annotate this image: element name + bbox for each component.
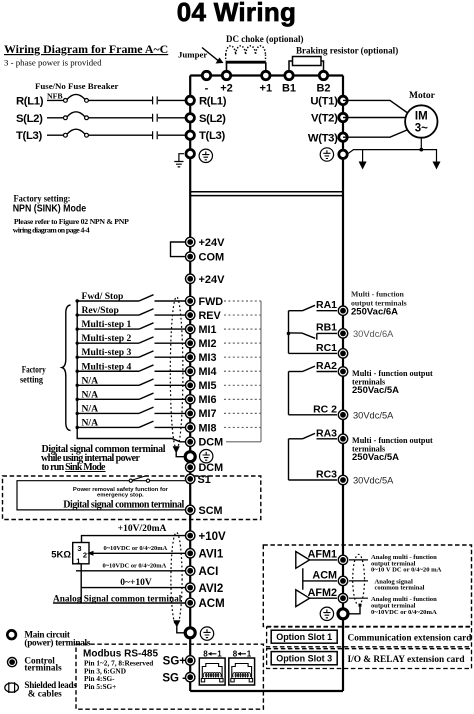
motor IM 3~ xyxy=(405,105,437,137)
switch Rev/Stop for REV xyxy=(77,314,185,316)
svg-text:AVI1: AVI1 xyxy=(199,549,224,561)
svg-text:T(L3): T(L3) xyxy=(199,130,225,142)
terminal B1 (top row) xyxy=(285,71,293,79)
legend shielded leads symbol xyxy=(9,682,15,693)
svg-text:common terminal: common terminal xyxy=(375,585,425,592)
terminal - (top row) xyxy=(202,71,210,79)
svg-text:Jumper: Jumper xyxy=(178,50,207,60)
svg-text:U(T1): U(T1) xyxy=(310,96,338,108)
svg-text:3 - phase power is provided: 3 - phase power is provided xyxy=(4,58,102,68)
wire RC1 xyxy=(289,352,338,354)
svg-text:NFB: NFB xyxy=(47,92,63,101)
jumper bar between +2 and +1 xyxy=(226,61,266,64)
terminal T(L3) xyxy=(186,131,194,139)
wire W to motor xyxy=(343,130,407,137)
svg-text:MI8: MI8 xyxy=(199,422,217,434)
gray vertical rail xyxy=(260,301,262,442)
earth circle near drain xyxy=(200,450,213,463)
svg-text:Analog Signal common terminal: Analog Signal common terminal xyxy=(53,594,182,604)
svg-text:ACM: ACM xyxy=(312,570,337,582)
terminal RC1 xyxy=(338,349,347,358)
switch Multi-step 4 for MI4 xyxy=(77,370,185,372)
terminal AFM2 xyxy=(338,594,347,603)
terminal RB1 xyxy=(338,329,347,338)
svg-text:(power) terminals: (power) terminals xyxy=(24,638,90,648)
terminal S1 xyxy=(186,474,195,483)
wire pot pin1 down xyxy=(80,564,82,603)
terminal R(L1) xyxy=(186,96,194,104)
terminal FWD xyxy=(186,296,195,305)
svg-text:ACI: ACI xyxy=(199,566,219,578)
terminal AVI1 xyxy=(186,549,195,558)
svg-text:+1: +1 xyxy=(260,83,273,95)
svg-text:30Vdc/6A: 30Vdc/6A xyxy=(353,329,394,339)
svg-text:Multi-step 1: Multi-step 1 xyxy=(82,319,132,330)
svg-text:COM: COM xyxy=(199,252,225,264)
svg-text:Wiring Diagram for Frame A~C: Wiring Diagram for Frame A~C xyxy=(4,42,168,56)
svg-text:250Vac/6A: 250Vac/6A xyxy=(351,306,398,317)
wire S1-SCM loop xyxy=(17,481,185,510)
potentiometer 5K xyxy=(73,543,89,564)
svg-text:Multi - function: Multi - function xyxy=(351,290,405,299)
junction RB1 xyxy=(287,332,291,336)
earth circle near analog drain xyxy=(200,627,213,640)
svg-text:N/A: N/A xyxy=(82,389,99,400)
terminal COM xyxy=(186,252,195,261)
terminal RA2 xyxy=(338,367,347,376)
terminal shield drain (white) xyxy=(185,452,195,462)
switch RA1 xyxy=(289,310,303,312)
breaker NFB R(L1) xyxy=(64,99,68,103)
svg-text:AFM2: AFM2 xyxy=(308,587,337,599)
box Option Slot 1 xyxy=(271,630,337,643)
svg-text:2: 2 xyxy=(83,551,87,560)
svg-text:MI7: MI7 xyxy=(199,408,217,420)
terminal shield drain analog (white) xyxy=(185,628,195,638)
wire right bus xyxy=(342,76,344,692)
svg-text:30Vdc/5A: 30Vdc/5A xyxy=(353,411,394,421)
wire bottom bus xyxy=(190,690,343,692)
switch emergency stop xyxy=(129,479,132,482)
terminal RA3 xyxy=(338,434,347,443)
svg-text:0~+10V: 0~+10V xyxy=(120,578,152,588)
wire RC3 xyxy=(289,479,338,481)
svg-text:B2: B2 xyxy=(316,83,330,95)
svg-text:1: 1 xyxy=(247,650,252,659)
box Option Slot 3 xyxy=(271,652,337,665)
terminal MI4 xyxy=(186,367,195,376)
terminal SG+ xyxy=(186,656,195,665)
svg-text:+10V/20mA: +10V/20mA xyxy=(118,524,167,534)
wire motor ground run xyxy=(347,150,437,155)
svg-text:30Vdc/5A: 30Vdc/5A xyxy=(353,476,394,486)
svg-text:SCM: SCM xyxy=(199,505,223,517)
connector RJ45 #2 xyxy=(229,658,255,685)
svg-text:0~10VDC or 0/4~20mA: 0~10VDC or 0/4~20mA xyxy=(103,563,167,570)
terminal PE left (ground) xyxy=(186,150,194,158)
svg-text:DCM: DCM xyxy=(199,437,224,449)
svg-text:0~10 V DC or 0/4~20 mA: 0~10 V DC or 0/4~20 mA xyxy=(371,567,442,574)
svg-text:-: - xyxy=(205,83,209,95)
svg-text:R(L1): R(L1) xyxy=(16,95,44,107)
terminal RA1 xyxy=(338,306,347,315)
dashed box option slot 3 xyxy=(267,649,472,669)
dashed box AFM analog outputs xyxy=(263,545,471,627)
wire ACI xyxy=(76,570,185,572)
op-amp AFM1 xyxy=(296,552,310,569)
terminal DCM 2 xyxy=(186,463,195,472)
terminal REV xyxy=(186,310,195,319)
dashed box option slot 1 xyxy=(267,627,472,647)
svg-text:emergency stop.: emergency stop. xyxy=(97,493,144,499)
dotted link MI1 to DCM rail xyxy=(224,328,261,330)
svg-text:Motor: Motor xyxy=(409,91,436,101)
svg-text:RB1: RB1 xyxy=(316,322,337,334)
terminal +2 (top row) xyxy=(222,71,230,79)
svg-text:RA3: RA3 xyxy=(316,427,337,439)
separator double line xyxy=(190,192,343,196)
op-amp AFM2 xyxy=(296,590,310,607)
wire amp common xyxy=(303,568,337,590)
dotted link MI2 to DCM rail xyxy=(224,342,261,344)
wire digital common left rail xyxy=(77,301,185,442)
dotted link FWD to DCM rail xyxy=(224,300,261,302)
svg-text:+10V: +10V xyxy=(199,531,227,543)
shield drain arrow digital xyxy=(173,446,180,453)
svg-text:RC3: RC3 xyxy=(316,469,337,481)
relay 3 bracket xyxy=(288,439,290,480)
svg-text:RA1: RA1 xyxy=(316,299,337,311)
svg-text:MI3: MI3 xyxy=(199,352,217,364)
switch N/A for MI5 xyxy=(77,384,185,386)
wire RC2 xyxy=(289,414,338,416)
svg-text:terminals: terminals xyxy=(24,662,62,672)
wire AFM2 xyxy=(310,597,337,599)
terminal +24V xyxy=(186,274,195,283)
svg-text:DCM: DCM xyxy=(199,462,224,474)
dotted link MI6 to DCM rail xyxy=(224,398,261,400)
svg-text:to run Sink Mode: to run Sink Mode xyxy=(42,462,107,473)
switch Fwd/ Stop for FWD xyxy=(77,300,185,302)
earth circle symbol (right PE) xyxy=(320,148,333,161)
svg-text:3~: 3~ xyxy=(415,123,428,135)
wire AFM1 xyxy=(310,559,337,561)
wire V to motor xyxy=(343,117,405,119)
svg-text:I/O & RELAY extension card: I/O & RELAY extension card xyxy=(348,655,466,665)
svg-text:Rev/Stop: Rev/Stop xyxy=(82,305,119,316)
svg-text:IM: IM xyxy=(415,111,428,123)
terminal PE right (ground) xyxy=(339,150,347,158)
svg-text:Multi-step 4: Multi-step 4 xyxy=(82,361,132,372)
terminal W(T3) xyxy=(339,133,347,141)
gray link DCM to rail xyxy=(226,441,261,443)
svg-text:250Vac/5A: 250Vac/5A xyxy=(352,452,399,463)
legend control terminal symbol xyxy=(8,658,17,667)
ground symbol left xyxy=(174,154,184,167)
svg-text:Digital signal common termi: Digital signal common terminal xyxy=(63,500,184,511)
svg-text:N/A: N/A xyxy=(82,417,99,428)
terminal MI5 xyxy=(186,381,195,390)
switch Multi-step 1 for MI1 xyxy=(77,328,185,330)
wires AFM right stubs xyxy=(349,560,368,598)
terminal MI8 xyxy=(186,423,195,432)
terminal SCM xyxy=(186,505,195,514)
terminal DCM xyxy=(186,437,195,446)
wire left bus xyxy=(189,76,191,692)
dashed box Modbus RS-485 xyxy=(76,644,263,709)
svg-text:SG+: SG+ xyxy=(163,656,187,668)
break mark T(L3) xyxy=(153,131,158,139)
svg-text:wiring diagram on page 4-4: wiring diagram on page 4-4 xyxy=(13,225,90,234)
terminal MI2 xyxy=(186,338,195,347)
brace factory setting xyxy=(62,305,71,431)
svg-text:REV: REV xyxy=(199,310,222,322)
svg-text:Multi-step 3: Multi-step 3 xyxy=(82,347,132,358)
dotted link MI3 to DCM rail xyxy=(224,356,261,358)
connector RJ45 #1 xyxy=(199,658,225,685)
switch Multi-step 3 for MI3 xyxy=(77,356,185,358)
relay 1 bracket xyxy=(288,311,290,354)
shield ellipse analog xyxy=(171,533,182,626)
break mark S(L2) xyxy=(153,114,158,122)
terminal MI3 xyxy=(186,353,195,362)
switch RB1 (NC) xyxy=(289,333,316,338)
svg-text:FWD: FWD xyxy=(199,296,224,308)
svg-text:+24V: +24V xyxy=(199,237,226,249)
terminal AFM1 xyxy=(338,555,347,564)
svg-text:3: 3 xyxy=(77,544,81,553)
switch RA2 xyxy=(289,371,303,373)
svg-text:MI4: MI4 xyxy=(199,366,217,378)
terminal ACI xyxy=(186,566,195,575)
svg-text:R(L1): R(L1) xyxy=(199,95,227,107)
svg-text:NPN (SINK) Mode: NPN (SINK) Mode xyxy=(13,203,87,214)
terminal SG- xyxy=(186,673,195,682)
svg-text:MI2: MI2 xyxy=(199,338,217,350)
svg-text:+2: +2 xyxy=(220,83,233,95)
dashed box S1 safety xyxy=(3,476,261,520)
jumper bracket +24V-COM xyxy=(171,242,186,257)
svg-text:Fwd/ Stop: Fwd/ Stop xyxy=(82,291,124,302)
earth arrow 1 xyxy=(359,149,367,170)
svg-text:Communication extension card: Communication extension card xyxy=(348,634,473,644)
svg-text:0~10VDC or 0/4~20mA: 0~10VDC or 0/4~20mA xyxy=(371,609,437,616)
svg-text:W(T3): W(T3) xyxy=(308,132,338,144)
svg-text:S(L2): S(L2) xyxy=(16,113,43,125)
terminal +1 (top row) xyxy=(262,71,270,79)
terminal S(L2) xyxy=(186,114,194,122)
switch N/A for MI7 xyxy=(77,412,185,414)
svg-text:MI6: MI6 xyxy=(199,394,217,406)
svg-text:0~10VDC or 0/4~20mA: 0~10VDC or 0/4~20mA xyxy=(104,545,168,552)
svg-text:MI5: MI5 xyxy=(199,380,217,392)
dotted link MI5 to DCM rail xyxy=(224,384,261,386)
svg-text:Braking resistor (optional): Braking resistor (optional) xyxy=(296,46,398,56)
wire top terminal row xyxy=(190,74,343,76)
terminal RC2 xyxy=(338,410,347,419)
earth circle symbol (left PE) xyxy=(199,149,212,162)
svg-text:04 Wiring: 04 Wiring xyxy=(177,0,296,27)
svg-text:Pin 5:SG+: Pin 5:SG+ xyxy=(84,682,116,691)
wire phase S(L2) xyxy=(47,117,190,119)
svg-text:SG -: SG - xyxy=(162,672,186,684)
earth arrow 2 xyxy=(433,149,441,170)
junction motor ground xyxy=(419,148,423,152)
wire U to motor xyxy=(343,100,407,112)
terminal +24V xyxy=(186,237,195,246)
earth circle near AFM drain xyxy=(320,607,333,620)
dotted link MI4 to DCM rail xyxy=(224,370,261,372)
switch N/A for MI8 xyxy=(77,426,185,428)
terminal MI1 xyxy=(186,324,195,333)
breaker NFB S(L2) xyxy=(64,116,68,120)
svg-text:Option Slot 1: Option Slot 1 xyxy=(276,632,332,642)
dotted link REV to DCM rail xyxy=(224,314,261,316)
terminal V(T2) xyxy=(339,113,347,121)
svg-text:V(T2): V(T2) xyxy=(311,113,338,125)
wire phase R(L1) xyxy=(47,99,190,101)
shield drain arrow analog xyxy=(173,620,180,627)
svg-text:B1: B1 xyxy=(282,83,296,95)
svg-text:AVI2: AVI2 xyxy=(199,583,224,595)
svg-text:Multi-step 2: Multi-step 2 xyxy=(82,333,132,344)
svg-text:MI1: MI1 xyxy=(199,324,217,336)
terminal +10V xyxy=(186,531,195,540)
svg-text:S1: S1 xyxy=(198,474,211,486)
terminal MI7 xyxy=(186,409,195,418)
svg-text:AFM1: AFM1 xyxy=(308,549,337,561)
svg-text:1: 1 xyxy=(217,650,222,659)
wire ACM xyxy=(53,602,185,604)
switch Multi-step 2 for MI2 xyxy=(77,342,185,344)
dotted link MI8 to DCM rail xyxy=(224,426,261,428)
svg-text:8: 8 xyxy=(233,650,238,659)
wire AVI1 with wiper arrow xyxy=(92,552,185,554)
break mark R(L1) xyxy=(153,96,158,104)
svg-text:RC 2: RC 2 xyxy=(313,403,337,415)
svg-text:+24V: +24V xyxy=(199,274,226,286)
svg-text:DC choke (optional): DC choke (optional) xyxy=(226,34,304,44)
svg-text:Factory: Factory xyxy=(22,366,46,376)
dotted link MI7 to DCM rail xyxy=(224,412,261,414)
svg-text:ACM: ACM xyxy=(199,598,225,610)
terminal MI6 xyxy=(186,395,195,404)
svg-text:Fuse/No Fuse Breaker: Fuse/No Fuse Breaker xyxy=(35,81,118,91)
wire +10V from pot xyxy=(82,536,186,543)
inductor DC choke (dotted coil) xyxy=(226,46,266,55)
svg-text:1: 1 xyxy=(76,556,80,565)
svg-text:S(L2): S(L2) xyxy=(199,113,226,125)
svg-text:N/A: N/A xyxy=(82,375,99,386)
wire phase T(L3) xyxy=(47,134,190,136)
terminal AFM drain (white) xyxy=(338,609,348,619)
breaker NFB T(L3) xyxy=(64,133,68,137)
terminal RC3 xyxy=(338,475,347,484)
shield ellipse AFM xyxy=(353,554,365,605)
svg-text:5KΩ: 5KΩ xyxy=(51,550,71,561)
svg-text:Option Slot 3: Option Slot 3 xyxy=(276,654,332,664)
svg-text:& cables: & cables xyxy=(28,688,62,698)
switch RA3 xyxy=(289,438,303,440)
resistor braking resistor xyxy=(293,57,322,66)
shield drain AFM xyxy=(359,604,362,607)
svg-text:T(L3): T(L3) xyxy=(16,130,42,142)
svg-text:RA2: RA2 xyxy=(316,360,337,372)
svg-text:N/A: N/A xyxy=(82,403,99,414)
legend main circuit terminal symbol xyxy=(7,630,16,639)
terminal ACM xyxy=(186,598,195,607)
svg-text:8: 8 xyxy=(203,650,208,659)
terminal ACM (output side) xyxy=(338,576,347,585)
svg-text:250Vac/5A: 250Vac/5A xyxy=(352,385,399,396)
terminal B2 (top row) xyxy=(319,71,327,79)
svg-text:RC1: RC1 xyxy=(316,342,337,354)
shield ellipse digital xyxy=(170,297,183,449)
terminal U(T1) xyxy=(339,96,347,104)
svg-text:setting: setting xyxy=(20,376,43,386)
wire AVI2 xyxy=(81,587,185,589)
switch N/A for MI6 xyxy=(77,398,185,400)
terminal AVI2 xyxy=(186,583,195,592)
relay 2 bracket xyxy=(288,372,290,415)
